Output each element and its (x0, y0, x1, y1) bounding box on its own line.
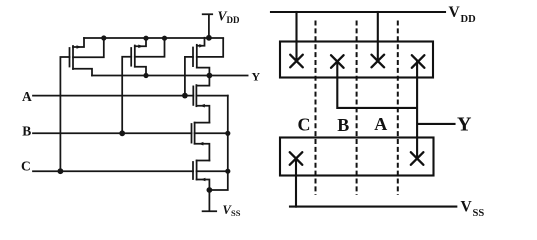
wire: Y output line (92, 75, 248, 77)
svg-text:SS: SS (473, 208, 485, 219)
poly line C (315, 21, 317, 196)
svg-text:DD: DD (227, 15, 240, 25)
wire: A up to Q3 gate (185, 57, 193, 96)
poly line A (397, 21, 399, 196)
junction dot: B line tap (119, 130, 125, 136)
label VDD (layout) (449, 4, 477, 25)
wire: VDD rail (layout) (271, 11, 445, 13)
nmos Q6 (gate C) (193, 161, 228, 191)
label VSS (layout) (461, 198, 485, 219)
junction dot: C line tap (58, 168, 64, 174)
pmos Q3 (gate A) (193, 38, 223, 76)
n-diffusion region (280, 138, 434, 176)
junction dot: bulk rail / Q5 bulk (225, 131, 230, 136)
label VSS (schematic) (223, 203, 241, 218)
input line B (33, 132, 192, 134)
metal: VSS drop from left n-contact (295, 159, 297, 207)
junction dot: VSS node (207, 187, 213, 193)
input line A (33, 95, 193, 97)
pmos Q2 (gate B) (131, 38, 164, 75)
wire: NMOS bulk rail to VSS (209, 96, 227, 190)
pmos Q1 (gate C) (70, 38, 104, 76)
junction dot: A line tap (182, 93, 188, 99)
wire: VSS rail (layout) (290, 206, 456, 208)
svg-text:C: C (298, 115, 311, 135)
contact X: p-diff to Y (right) (412, 55, 425, 68)
metal: VDD drop to left p-contact (295, 12, 297, 61)
ground terminal VSS (schematic) (203, 190, 217, 211)
svg-text:A: A (374, 114, 387, 134)
svg-text:SS: SS (231, 208, 241, 218)
nmos Q5 (gate B) (192, 123, 228, 161)
svg-text:C: C (21, 159, 31, 174)
junction dot: bulk rail / Q6 bulk (225, 169, 230, 174)
junction dot: Y / Q3 drain / Q4 drain (207, 73, 213, 79)
svg-text:V: V (449, 4, 461, 21)
contact X: p-diff to Y (second) (331, 55, 344, 68)
junction dot: Y / Q2 drain (143, 73, 148, 78)
svg-text:V: V (461, 198, 473, 215)
svg-text:Y: Y (457, 114, 472, 136)
svg-text:A: A (22, 89, 32, 104)
junction dot: rail / Q1 bulk (101, 35, 106, 40)
contact X: p-diff to VDD (third) (372, 55, 385, 68)
contact X: n-diff to VSS (left) (290, 152, 303, 165)
svg-text:B: B (337, 115, 349, 135)
wire: B up to Q2 gate (122, 57, 131, 134)
power terminal VDD (schematic) (203, 14, 213, 38)
input line C (33, 170, 193, 172)
poly line B (356, 21, 358, 196)
svg-text:B: B (22, 124, 31, 139)
junction dot: rail / Q2 source (143, 36, 148, 41)
label VDD (schematic) (218, 9, 240, 26)
nmos Q4 (gate A) (193, 76, 228, 123)
wire: VDD rail (schematic) (84, 37, 223, 39)
svg-text:DD: DD (461, 14, 477, 25)
contact X: p-diff to VDD (left) (290, 55, 303, 68)
contact X: n-diff to Y (right) (411, 152, 424, 165)
junction dot: rail / VDD stem (206, 35, 212, 41)
wire: C up to Q1 gate (60, 57, 69, 171)
metal: Y net (p-contact 2 down, jog right, down to n-contact, branch to Y) (337, 62, 454, 159)
svg-text:Y: Y (252, 70, 261, 84)
metal: VDD drop to right p-contact (377, 12, 379, 61)
junction dot: rail / Q2 bulk (162, 36, 167, 41)
p-diffusion region (280, 42, 433, 78)
